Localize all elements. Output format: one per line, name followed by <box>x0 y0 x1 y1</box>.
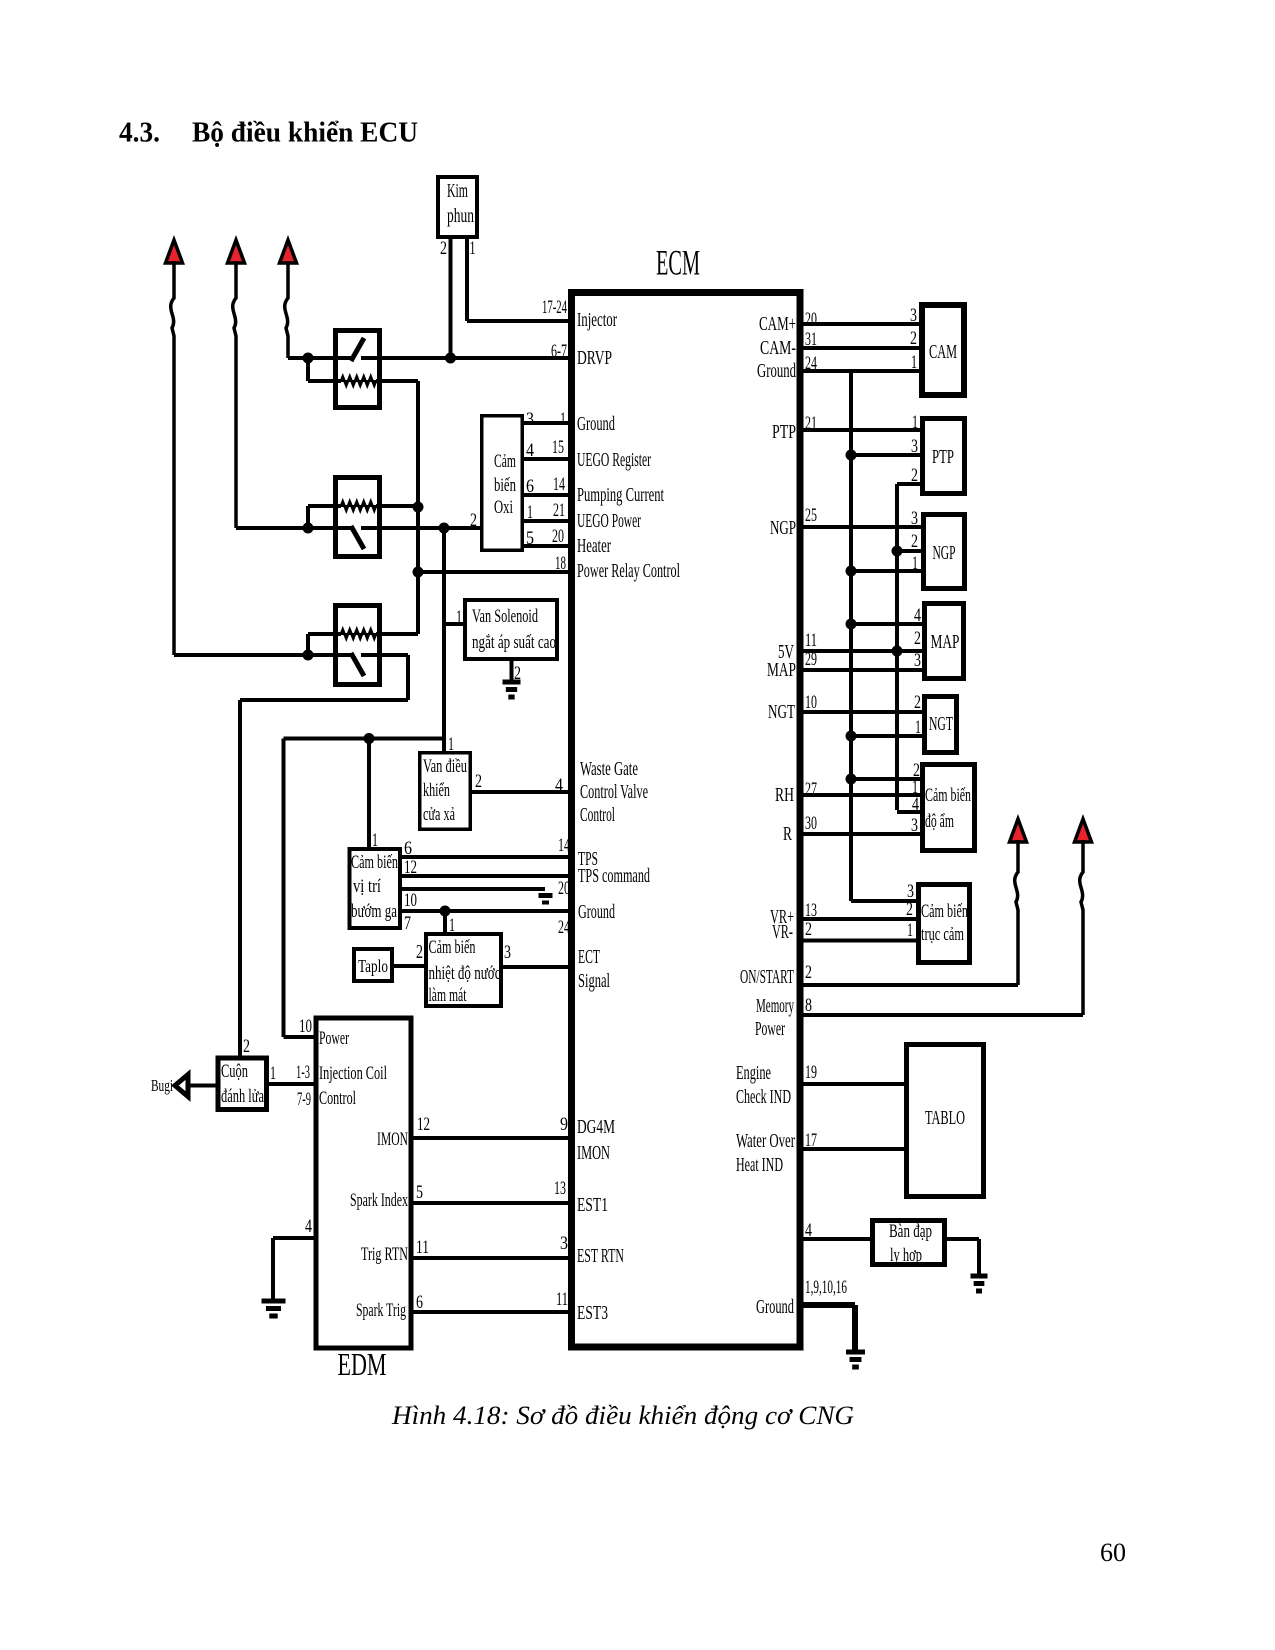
svg-text:Check IND: Check IND <box>736 1086 791 1108</box>
svg-text:RH: RH <box>775 784 794 806</box>
svg-text:9: 9 <box>560 1114 568 1135</box>
svg-text:1: 1 <box>911 352 917 373</box>
svg-text:12: 12 <box>417 1114 430 1135</box>
relay K3 switch blade <box>351 653 364 676</box>
svg-text:1: 1 <box>470 238 476 259</box>
svg-text:EST1: EST1 <box>577 1194 608 1216</box>
box Cam bien nhiet do nuoc lam mat <box>426 934 501 1006</box>
wire truc cam pin3 row <box>851 899 916 903</box>
svg-text:Memory: Memory <box>756 995 794 1017</box>
wire CAM Ground row <box>800 369 919 373</box>
relay K3 coil <box>335 633 381 635</box>
svg-text:biến: biến <box>494 476 516 496</box>
wire stub to Van Solenoid pin1 <box>444 622 463 626</box>
power arrow A1 <box>166 240 183 263</box>
svg-text:4: 4 <box>305 1216 312 1237</box>
svg-text:21: 21 <box>553 500 565 521</box>
wire ECM Ground 1,9,10,16 <box>800 1302 855 1308</box>
wire A3 to K1 switch <box>288 356 351 360</box>
svg-text:EDM: EDM <box>338 1346 387 1382</box>
svg-text:IMON: IMON <box>577 1142 610 1164</box>
svg-text:5: 5 <box>416 1182 423 1203</box>
wire 5V / MAP pin2 row <box>800 649 922 653</box>
svg-text:6-7: 6-7 <box>551 341 567 362</box>
svg-text:Injection Coil: Injection Coil <box>319 1063 387 1084</box>
svg-text:R: R <box>783 823 792 845</box>
svg-text:Trig RTN: Trig RTN <box>361 1244 408 1265</box>
wire A1 to K3 switch <box>174 653 351 657</box>
power arrow A3 <box>280 240 297 263</box>
svg-text:cửa xả: cửa xả <box>423 805 455 825</box>
wire down to Cuon danh lua pin2 <box>238 700 242 1058</box>
svg-text:Cảm biến: Cảm biến <box>429 938 476 958</box>
svg-text:14: 14 <box>553 474 565 495</box>
svg-text:19: 19 <box>805 1062 817 1083</box>
box PTP <box>923 419 965 494</box>
ECM main box U1 <box>572 293 801 1348</box>
svg-text:Kim: Kim <box>447 180 468 202</box>
svg-text:Power: Power <box>755 1018 785 1040</box>
junction supply / buom ga <box>364 733 375 744</box>
svg-text:ECT: ECT <box>578 946 600 968</box>
box Cam bien do am (humidity sensor) <box>923 765 975 851</box>
junction K2 node <box>303 523 314 534</box>
relay K2 switch blade <box>351 526 364 549</box>
wire TPS Ground row <box>402 909 571 913</box>
box Cuon danh lua <box>218 1058 267 1110</box>
svg-text:24: 24 <box>558 917 570 938</box>
svg-text:3: 3 <box>914 650 921 671</box>
box Cam bien vi tri buom ga (TPS) <box>350 849 401 928</box>
junction K2 switch line / sensor bus <box>439 523 450 534</box>
svg-text:2: 2 <box>416 942 423 963</box>
svg-text:3: 3 <box>911 815 918 836</box>
svg-text:PTP: PTP <box>772 421 796 443</box>
svg-text:2: 2 <box>805 919 812 940</box>
wire to K1 coil <box>308 379 341 383</box>
wire arrow A1 down <box>171 261 174 655</box>
wire sensor bus x444 <box>442 528 446 751</box>
wire MAP pin4 row <box>851 622 922 626</box>
svg-text:Control Valve: Control Valve <box>580 781 648 803</box>
wire ON/START row <box>800 983 1018 987</box>
svg-text:PTP: PTP <box>932 446 954 468</box>
relay K1 box <box>336 331 380 408</box>
wire NGP pin1 row <box>851 569 921 573</box>
relay K2 box <box>336 478 380 557</box>
wire Oxi pin5 Heater row <box>524 544 571 548</box>
wire EDM pin4 <box>273 1236 314 1240</box>
wire K2 coil-left drop <box>306 506 310 528</box>
wire K3 switch right <box>361 653 408 657</box>
box NGT <box>925 697 957 753</box>
svg-text:1: 1 <box>560 409 566 430</box>
junction coil bus / K2 coil <box>413 502 424 513</box>
box Taplo <box>354 949 392 981</box>
EDM box U2 <box>316 1018 411 1348</box>
svg-text:Injector: Injector <box>577 309 617 331</box>
svg-text:3: 3 <box>560 1233 568 1254</box>
svg-text:2: 2 <box>475 771 482 792</box>
svg-text:1,9,10,16: 1,9,10,16 <box>805 1277 847 1298</box>
wire Taplo to nhiet do <box>394 964 426 968</box>
svg-text:3: 3 <box>910 305 917 326</box>
wire coil bus vertical x418 <box>416 381 420 634</box>
relay K1 switch blade <box>351 338 364 361</box>
svg-text:17: 17 <box>805 1130 817 1151</box>
svg-text:29: 29 <box>805 649 817 670</box>
svg-text:6: 6 <box>416 1292 423 1313</box>
wire Oxi pin3 Ground row <box>524 421 571 425</box>
svg-text:Van Solenoid: Van Solenoid <box>472 606 538 627</box>
svg-text:DG4M: DG4M <box>577 1116 615 1138</box>
wire CAM- row <box>800 346 919 350</box>
svg-text:Spark Trig: Spark Trig <box>356 1300 406 1321</box>
svg-text:4: 4 <box>526 440 534 461</box>
wire RH / do am pin1 row <box>800 793 920 797</box>
svg-text:Oxi: Oxi <box>494 498 513 518</box>
wire K1 coil right <box>376 379 418 383</box>
svg-text:10: 10 <box>404 890 417 911</box>
wire Injector row <box>467 319 571 323</box>
wire arrow A4 down <box>1015 840 1018 985</box>
wire down to EDM Power <box>282 739 286 1038</box>
svg-text:4: 4 <box>912 794 919 815</box>
svg-text:ngắt áp suất cao: ngắt áp suất cao <box>472 632 556 653</box>
wire NGT pin2 row <box>800 710 922 714</box>
box Cam bien Oxi (O2 sensor) <box>482 416 523 551</box>
wire Ban dap row <box>800 1237 870 1241</box>
wire into Van dieu khien pin1 <box>442 739 446 754</box>
box CAM <box>922 305 964 395</box>
svg-text:4: 4 <box>914 605 921 626</box>
svg-text:2: 2 <box>440 238 447 259</box>
box Kim phun (injector) <box>438 177 477 237</box>
svg-text:đánh lửa: đánh lửa <box>221 1086 264 1107</box>
svg-text:13: 13 <box>554 1178 566 1199</box>
wire K2 switch to Oxi pin2 <box>361 526 482 530</box>
relay K2 coil <box>335 505 381 507</box>
svg-text:NGT: NGT <box>929 713 953 735</box>
svg-text:TPS command: TPS command <box>578 865 650 887</box>
svg-text:ECM: ECM <box>656 243 700 283</box>
svg-text:Bộ điều khiển ECU: Bộ điều khiển ECU <box>192 117 418 149</box>
svg-text:10: 10 <box>299 1016 312 1037</box>
svg-text:bướm ga: bướm ga <box>351 902 397 922</box>
svg-text:Heat IND: Heat IND <box>736 1154 783 1176</box>
svg-text:trục cảm: trục cảm <box>921 925 964 945</box>
svg-text:Ground: Ground <box>577 413 615 435</box>
svg-text:1-3: 1-3 <box>296 1062 310 1083</box>
wire Trig RTN/EST RTN row <box>414 1256 572 1260</box>
svg-text:25: 25 <box>805 505 817 526</box>
svg-text:2: 2 <box>914 692 921 713</box>
svg-text:Taplo: Taplo <box>358 956 388 976</box>
svg-text:13: 13 <box>805 900 817 921</box>
svg-text:Water Over: Water Over <box>736 1130 795 1152</box>
svg-text:nhiệt độ nước: nhiệt độ nước <box>429 964 501 984</box>
junction bus/NGT1 <box>846 731 857 742</box>
svg-text:27: 27 <box>805 779 817 800</box>
wire ground bus x851 <box>849 371 853 901</box>
box Ban dap ly hop (clutch pedal) <box>873 1221 945 1265</box>
svg-text:Bugi: Bugi <box>151 1076 173 1095</box>
svg-text:Signal: Signal <box>578 970 610 992</box>
wire IMON/DG4M row <box>414 1136 572 1140</box>
ground EDM pin4 <box>262 1299 286 1304</box>
box Van dieu khien cua xa <box>420 753 471 830</box>
junction DRVP/Kim phun <box>445 353 456 364</box>
svg-text:vị trí: vị trí <box>353 877 381 897</box>
svg-text:DRVP: DRVP <box>577 347 612 369</box>
wire K1 coil-left drop <box>306 358 310 381</box>
svg-text:CAM: CAM <box>929 341 957 363</box>
svg-text:20: 20 <box>805 309 817 330</box>
svg-text:15: 15 <box>552 437 564 458</box>
wire arrow A3 down <box>285 261 288 358</box>
svg-text:Control: Control <box>319 1088 356 1109</box>
junction bus/NGP1 <box>846 566 857 577</box>
svg-text:Bàn đạp: Bàn đạp <box>889 1221 932 1242</box>
svg-text:IMON: IMON <box>377 1129 408 1150</box>
wire Memory Power row <box>800 1013 1083 1017</box>
junction bus/do am 2 <box>846 774 857 785</box>
wire VR- / truc cam pin1 row <box>800 939 916 943</box>
svg-text:làm mát: làm mát <box>429 986 468 1006</box>
box Cam bien truc cam (cam sensor) <box>919 885 970 963</box>
svg-text:10: 10 <box>805 692 817 713</box>
svg-text:ly hợp: ly hợp <box>890 1245 922 1266</box>
svg-text:Power Relay Control: Power Relay Control <box>577 560 680 582</box>
wire TPS pin10 to ground <box>402 887 545 891</box>
svg-text:6: 6 <box>526 476 534 497</box>
wire Ban dap ground drop <box>977 1239 981 1276</box>
svg-text:Waste Gate: Waste Gate <box>580 758 638 780</box>
wire Power Relay Control row <box>418 570 571 574</box>
wire TPS command row <box>402 874 571 878</box>
junction K3 node <box>303 650 314 661</box>
svg-text:UEGO Power: UEGO Power <box>577 510 641 532</box>
wire to Cam bien vi tri buom ga pin1 <box>367 739 371 850</box>
svg-text:VR-: VR- <box>772 921 793 943</box>
wire Oxi pin4 UEGO Register row <box>524 457 571 461</box>
ground TPS pin10 stub <box>539 893 553 898</box>
svg-text:UEGO Register: UEGO Register <box>577 449 651 471</box>
svg-text:2: 2 <box>911 531 918 552</box>
wire TPS row <box>402 855 571 859</box>
svg-text:60: 60 <box>1100 1538 1126 1567</box>
wire K3 return horizontal <box>240 698 408 702</box>
svg-text:EST RTN: EST RTN <box>577 1245 624 1267</box>
svg-text:14: 14 <box>558 835 570 856</box>
svg-text:3: 3 <box>911 436 918 457</box>
svg-text:Cảm biến: Cảm biến <box>351 853 398 873</box>
svg-text:12: 12 <box>404 857 417 878</box>
wire NGP pin3 row <box>800 525 921 529</box>
junction bus/MAP4 <box>846 619 857 630</box>
svg-text:CAM+: CAM+ <box>759 313 796 335</box>
svg-text:Ground: Ground <box>757 360 796 382</box>
svg-text:Cuộn: Cuộn <box>221 1061 248 1082</box>
svg-text:Hình 4.18: Sơ đồ điều khiển độ: Hình 4.18: Sơ đồ điều khiển động cơ CNG <box>391 1400 854 1430</box>
svg-text:Cảm biến: Cảm biến <box>921 902 968 922</box>
box NGP <box>924 515 965 589</box>
svg-text:Ground: Ground <box>578 901 615 923</box>
svg-text:Van điều: Van điều <box>423 757 467 777</box>
svg-text:11: 11 <box>416 1237 429 1258</box>
wire A2 to K2 switch <box>236 526 351 530</box>
wire sensor supply horizontal <box>284 737 445 741</box>
wire ECM ground drop <box>852 1305 858 1352</box>
wire K3 coil right <box>376 632 418 636</box>
svg-text:EST3: EST3 <box>577 1302 608 1324</box>
svg-text:Spark Index: Spark Index <box>350 1190 408 1211</box>
wire VR+ / truc cam pin2 row <box>800 917 916 921</box>
box TABLO <box>907 1045 984 1197</box>
svg-text:MAP: MAP <box>931 631 960 653</box>
wire Kim phun pin1 down <box>465 239 469 321</box>
wire arrow A2 down <box>233 261 236 528</box>
wire Waste Gate row <box>472 790 571 794</box>
svg-text:MAP: MAP <box>767 659 796 681</box>
svg-text:khiển: khiển <box>423 781 450 801</box>
svg-text:1: 1 <box>915 717 921 738</box>
svg-text:Power: Power <box>319 1028 349 1049</box>
box Van Solenoid ngat ap suat cao <box>465 600 557 659</box>
svg-text:11: 11 <box>556 1289 568 1310</box>
wire Bugi to Cuon danh lua <box>188 1084 216 1088</box>
wire K3 out drop <box>406 655 410 700</box>
svg-text:30: 30 <box>805 813 817 834</box>
svg-text:độ ẩm: độ ẩm <box>925 812 954 832</box>
junction K1 node <box>303 353 314 364</box>
power arrow A5 <box>1075 819 1092 842</box>
svg-text:2: 2 <box>914 628 921 649</box>
svg-text:3: 3 <box>911 508 918 529</box>
ground ECM <box>846 1350 865 1355</box>
svg-text:Ground: Ground <box>756 1296 794 1318</box>
ground Ban dap <box>971 1274 988 1279</box>
power arrow A4 <box>1010 819 1027 842</box>
svg-text:1: 1 <box>270 1063 276 1084</box>
junction bus/PTP3 <box>846 450 857 461</box>
junction Ground row / nhiet do pin1 <box>440 906 451 917</box>
svg-text:20: 20 <box>558 878 570 899</box>
wire Water Over Heat row <box>800 1147 904 1151</box>
wire to Cam bien nhiet do pin1 <box>443 911 447 934</box>
wire 5V bus x897 <box>895 484 899 810</box>
wire MAP29 / MAP pin3 row <box>800 668 922 672</box>
junction 5V bus/5V row <box>892 646 903 657</box>
wire Spark Index/EST1 row <box>414 1201 572 1205</box>
svg-text:31: 31 <box>805 329 817 350</box>
svg-text:4: 4 <box>555 775 563 796</box>
wire PTP pin1 row <box>800 428 920 432</box>
wire K2 coil right <box>376 504 418 508</box>
wire NGT pin1 row <box>851 734 922 738</box>
wire Spark Trig/EST3 row <box>414 1310 572 1314</box>
junction 5V bus/NGP2 <box>892 546 903 557</box>
svg-text:6: 6 <box>404 838 412 859</box>
wire K3 coil-left drop <box>306 634 310 655</box>
svg-text:7: 7 <box>404 913 411 934</box>
svg-text:5: 5 <box>526 528 534 549</box>
svg-text:3: 3 <box>504 942 511 963</box>
wire EDM pin4 down <box>271 1238 275 1301</box>
wire NGP pin2 row <box>897 549 921 553</box>
svg-text:NGP: NGP <box>933 542 956 564</box>
wire to K3 coil <box>308 632 341 636</box>
wire to K2 coil <box>308 504 341 508</box>
wire ECT Signal row <box>503 965 571 969</box>
svg-text:4.3.: 4.3. <box>119 117 160 149</box>
svg-text:1: 1 <box>912 412 918 433</box>
svg-text:2: 2 <box>906 899 913 920</box>
wire PTP pin3 row <box>851 453 920 457</box>
svg-text:Heater: Heater <box>577 535 611 557</box>
svg-text:Engine: Engine <box>736 1062 771 1084</box>
svg-text:4: 4 <box>805 1220 812 1241</box>
svg-text:2: 2 <box>805 962 812 983</box>
svg-text:18: 18 <box>555 553 566 574</box>
svg-text:2: 2 <box>470 510 477 531</box>
junction coil bus / relay control <box>413 567 424 578</box>
wire DRVP row <box>361 356 571 360</box>
wire Oxi pin6 Pumping Current row <box>524 493 571 497</box>
svg-text:NGT: NGT <box>768 701 795 723</box>
svg-text:8: 8 <box>805 995 812 1016</box>
svg-text:TABLO: TABLO <box>925 1108 965 1129</box>
svg-text:2: 2 <box>911 465 918 486</box>
wire EDM Power pin10 <box>284 1035 314 1039</box>
svg-text:Control: Control <box>580 804 615 826</box>
svg-text:24: 24 <box>805 353 817 374</box>
svg-text:1: 1 <box>456 607 462 628</box>
svg-text:1: 1 <box>907 920 913 941</box>
wire Oxi pin1 UEGO Power row <box>524 519 571 523</box>
svg-text:1: 1 <box>912 553 918 574</box>
svg-text:Cảm: Cảm <box>494 452 516 472</box>
svg-text:Pumping Current: Pumping Current <box>577 484 664 506</box>
wire Van Solenoid pin2 to ground <box>510 661 514 682</box>
svg-text:7-9: 7-9 <box>297 1089 311 1110</box>
ground Van Solenoid <box>503 680 521 685</box>
wire do am pin2 row <box>851 777 920 781</box>
wire arrow A5 down <box>1080 840 1083 1015</box>
svg-text:11: 11 <box>805 630 817 651</box>
svg-text:phun: phun <box>447 205 474 227</box>
svg-text:17-24: 17-24 <box>542 297 567 318</box>
svg-text:2: 2 <box>910 328 917 349</box>
arrow Bugi (spark plug) <box>175 1075 188 1097</box>
svg-text:NGP: NGP <box>770 517 796 539</box>
svg-text:Cảm biến: Cảm biến <box>925 786 971 806</box>
svg-text:ON/START: ON/START <box>740 966 794 988</box>
wire Kim phun pin2 to DRVP node <box>449 239 453 358</box>
wire Ban dap right <box>947 1237 979 1241</box>
wire do am pin4 row <box>897 810 920 814</box>
relay K3 box <box>336 606 380 685</box>
power arrow A2 <box>228 240 245 263</box>
svg-text:21: 21 <box>805 413 817 434</box>
relay K1 coil <box>335 380 381 382</box>
wire R / do am pin3 row <box>800 832 920 836</box>
wire Cuon danh lua to EDM <box>269 1082 314 1086</box>
svg-text:CAM-: CAM- <box>760 337 796 359</box>
svg-text:2: 2 <box>243 1036 250 1057</box>
svg-text:3: 3 <box>526 409 534 430</box>
box MAP <box>925 604 964 679</box>
